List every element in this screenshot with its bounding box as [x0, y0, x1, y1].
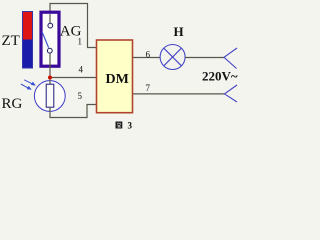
wire stub inside AG top	[49, 14, 51, 23]
thermistor/bimetal ZT body	[23, 12, 33, 69]
wire stub inside AG bottom	[49, 53, 51, 66]
wire from AG bottom through junction to RG	[49, 66, 51, 85]
pin number 5	[78, 91, 83, 101]
label DM	[106, 72, 129, 87]
svg-text:6: 6	[146, 49, 151, 59]
svg-text:5: 5	[78, 91, 83, 101]
svg-text:ZT: ZT	[2, 33, 20, 49]
svg-text:4: 4	[79, 65, 84, 75]
wire from AG top to pin 1 of DM	[50, 4, 96, 48]
switch blade diagonal	[42, 32, 49, 48]
pin number 1	[78, 37, 83, 47]
label RG	[2, 96, 23, 112]
control module DM box	[97, 40, 133, 113]
wire 4 from junction to DM	[50, 77, 96, 79]
wire 6 from DM to lamp	[133, 57, 160, 59]
wire from lamp to supply chevron	[185, 57, 224, 59]
svg-text:220V~: 220V~	[202, 69, 238, 84]
label ZT	[2, 33, 20, 49]
lamp H circle with cross	[160, 45, 185, 70]
pin number 7	[146, 83, 151, 93]
svg-text:DM: DM	[106, 72, 129, 87]
label AG	[60, 24, 82, 40]
supply terminal chevron top	[224, 48, 237, 69]
supply terminal chevron bottom	[225, 85, 238, 102]
caption figure glyph 图	[116, 122, 123, 129]
svg-text:H: H	[174, 24, 184, 39]
switch top contact circle	[48, 23, 53, 28]
label 220V~	[202, 69, 238, 84]
resistor body inside RG	[46, 84, 54, 107]
reed switch AG box	[41, 12, 59, 66]
pin number 4	[79, 65, 84, 75]
caption number 3	[128, 121, 133, 131]
svg-text:3: 3	[128, 121, 133, 131]
label H	[174, 24, 184, 39]
svg-text:1: 1	[78, 37, 83, 47]
switch bottom contact circle	[47, 48, 52, 53]
wire from RG bottom to pin 5 of DM	[50, 105, 96, 118]
light arrow 1	[24, 80, 36, 86]
junction dot	[48, 76, 52, 80]
pin number 6	[146, 49, 151, 59]
wire 7 from DM to supply chevron	[133, 93, 225, 95]
svg-text:RG: RG	[2, 96, 23, 112]
photoresistor RG circle	[34, 81, 65, 112]
light arrow 2	[21, 84, 32, 90]
svg-text:7: 7	[146, 83, 151, 93]
